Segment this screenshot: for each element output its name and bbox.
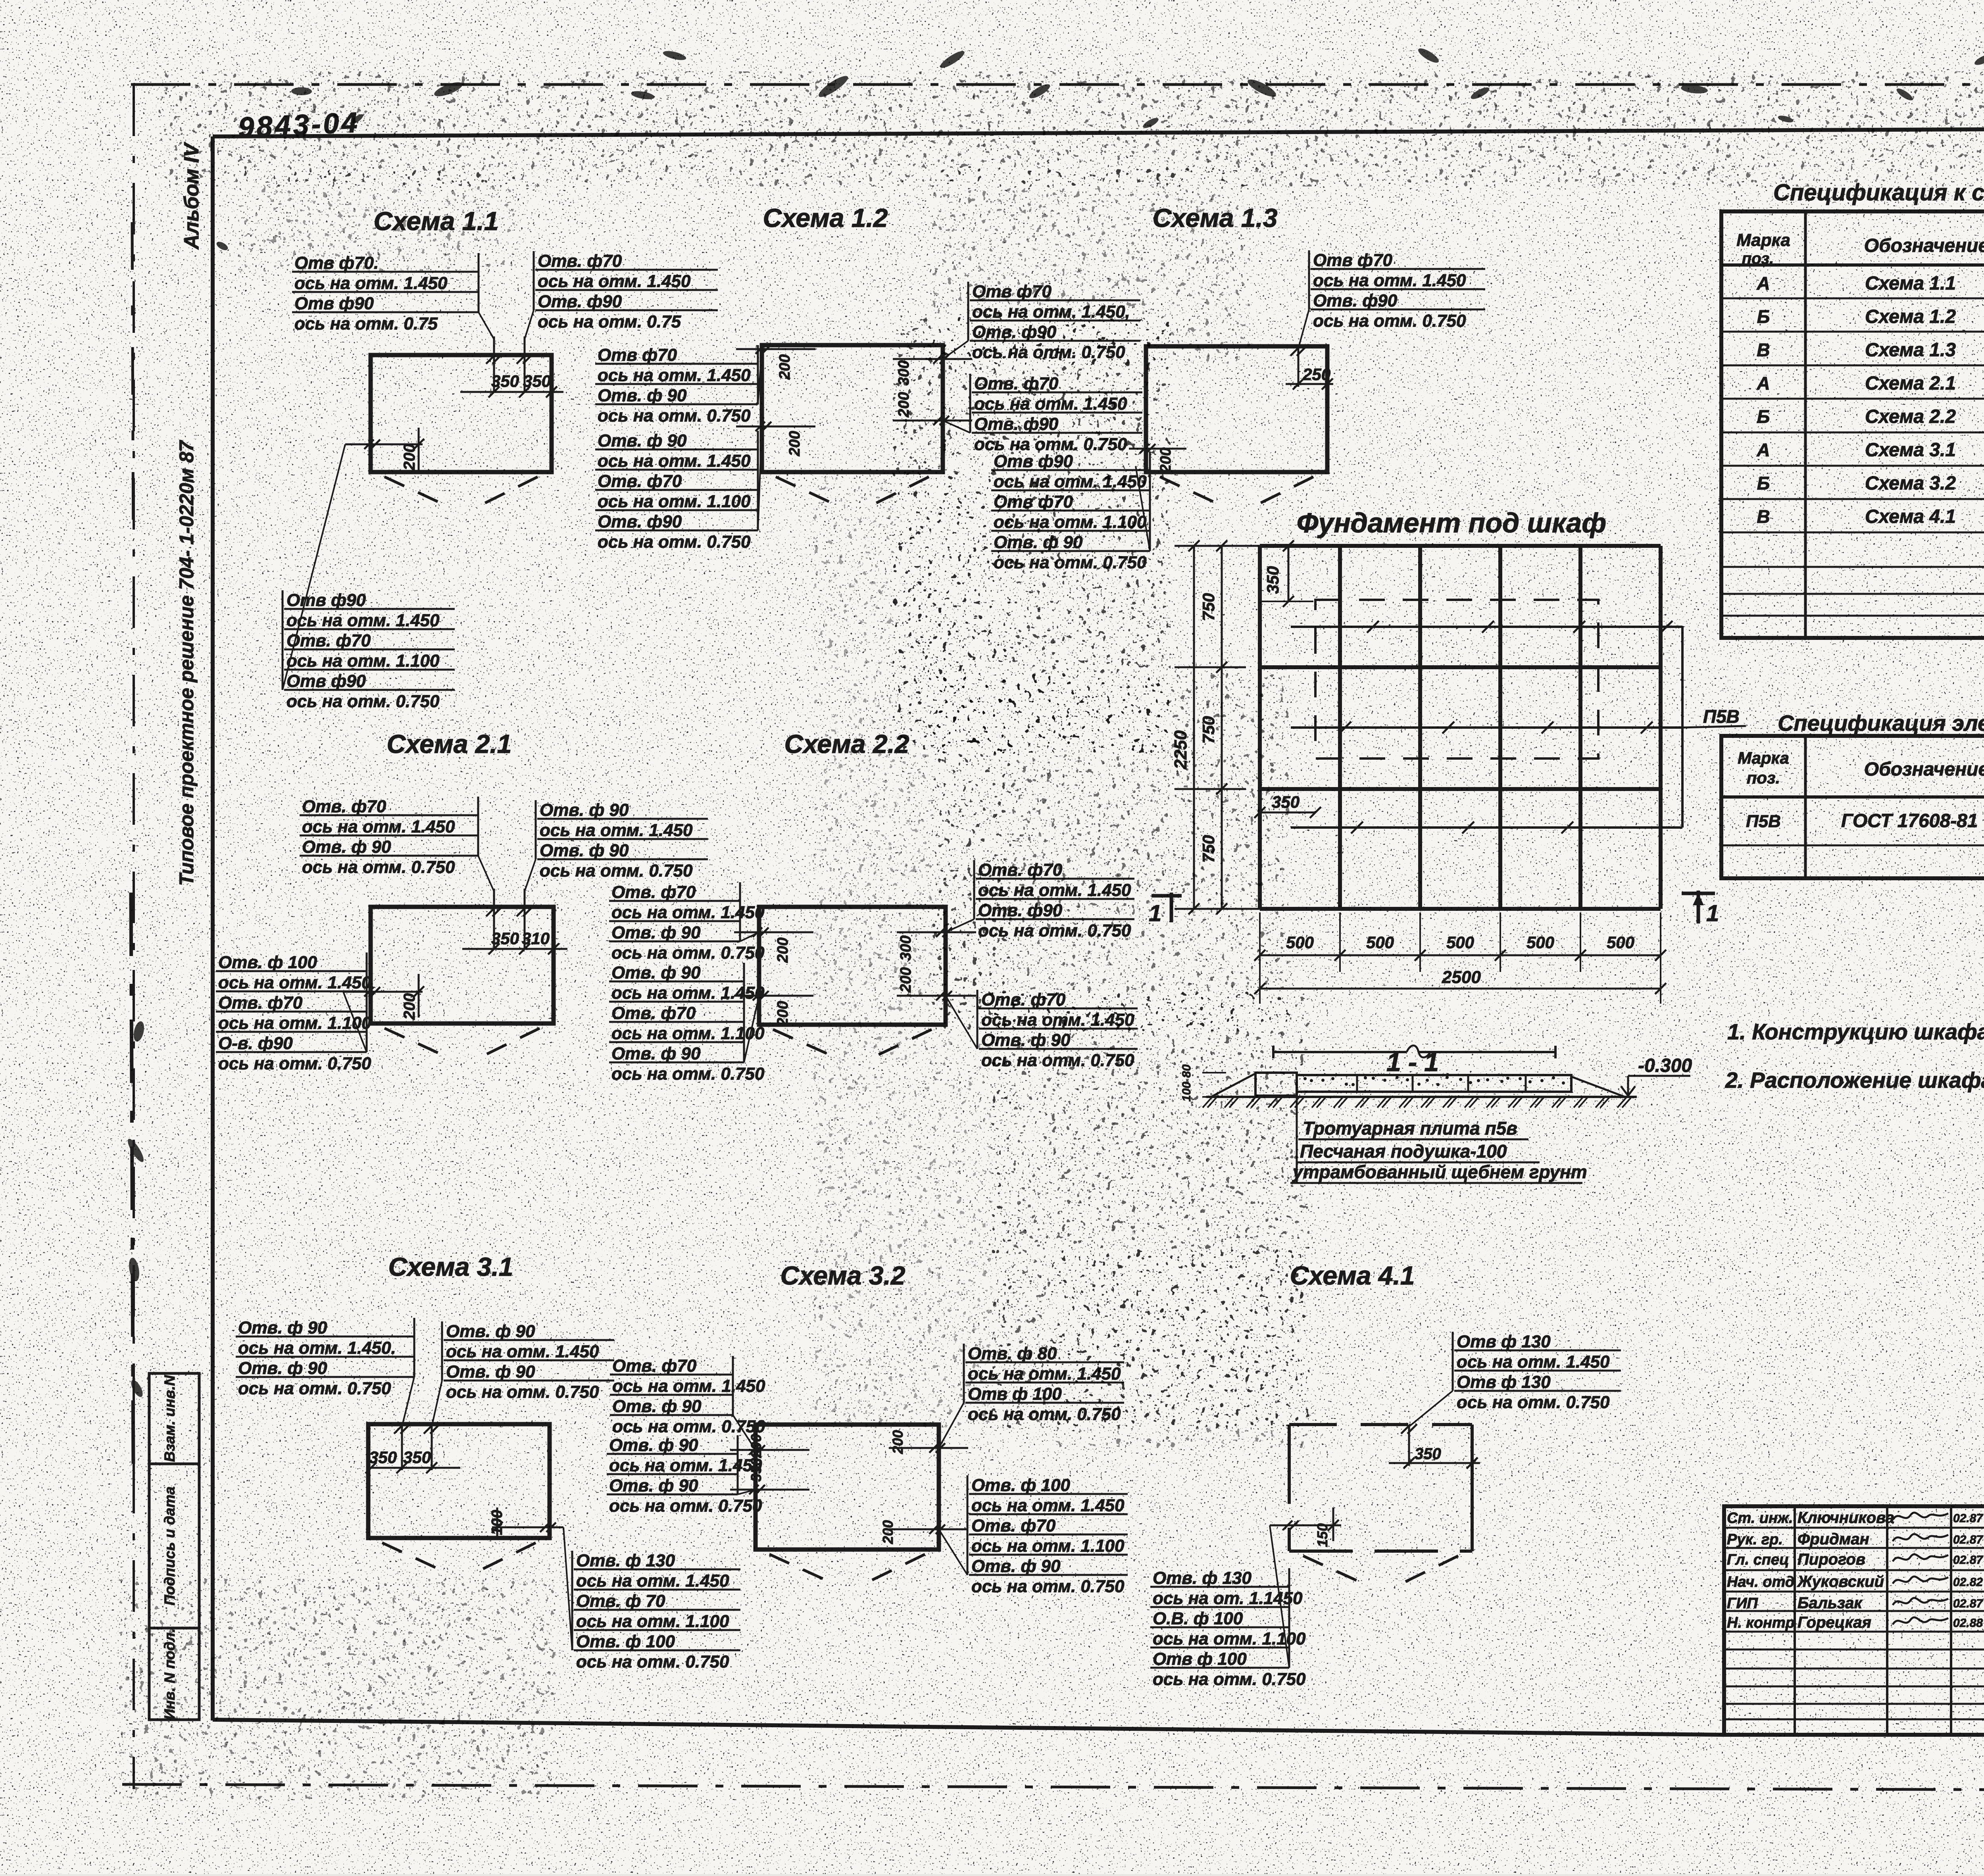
schema 2.2 cabinet outline: [759, 907, 946, 1025]
plan left dimension total 2250: [1193, 546, 1195, 909]
schema 2.1 left entry dim 200: [343, 991, 423, 993]
schema 2.1 labels top-right: [525, 800, 708, 891]
outer cut border dash-dot: [131, 83, 1984, 86]
scan ink blobs: [291, 87, 312, 96]
section material labels: [1296, 1092, 1298, 1183]
schema 2.1 labels top-left: [300, 797, 494, 891]
section slab left block: [1255, 1073, 1297, 1096]
schema 1.3 cabinet outline: [1146, 346, 1327, 472]
section ground line: [1206, 1096, 1637, 1098]
schema 1.1 labels bottom-left: [283, 444, 455, 711]
schema 2.2 right edge entries: [897, 931, 976, 933]
schema 1.2 cabinet outline: [762, 345, 943, 472]
schema 3.2 labels right-top: [939, 1344, 1124, 1448]
schema 1.1 labels top-left: [292, 253, 494, 339]
schema 1.2 labels right-bottom: [943, 374, 1142, 454]
schema 4.1 top entry dim 350: [1408, 1427, 1410, 1466]
schema 2.2 left edge entries: [734, 931, 813, 933]
dashed door swing: [384, 1028, 450, 1058]
dashed door swing: [384, 477, 449, 507]
schema 1.2 labels right-top: [943, 282, 1140, 362]
plan bottom total 2500: [1260, 988, 1661, 990]
ground hatching: [1203, 1097, 1212, 1108]
margin stamp boxes: [149, 1373, 199, 1464]
title block signature table: [1724, 1506, 1984, 1735]
schema 1.1 left hole entry dim 200: [345, 444, 423, 445]
plan bottom dimension chain 500x5: [1260, 954, 1661, 956]
schema 3.1 labels top-left: [236, 1318, 414, 1427]
foundation grid horizontals: [1260, 544, 1661, 548]
schema 1.2 left edge entries: [736, 348, 815, 350]
main drawing frame: [213, 127, 1984, 136]
schema 3.1 labels bottom-right: [563, 1527, 740, 1671]
schema 4.1 labels top: [1409, 1332, 1621, 1427]
schema 4.1 left bottom entry: [1270, 1525, 1341, 1527]
schema 2.2 labels right-bottom: [946, 990, 1138, 1070]
schema 3.1 labels top-right: [432, 1321, 614, 1427]
schema 2.1 labels left: [216, 952, 371, 1073]
section mark 1 right: [1682, 892, 1715, 895]
section mark 1 left: [1152, 894, 1182, 898]
dashed door swing: [382, 1543, 447, 1573]
specification table 2 grid: [1721, 736, 1984, 878]
plan dim 350 top (to dashed outline): [1288, 546, 1290, 601]
schema 3.2 right edge entries: [889, 1447, 968, 1449]
cabinet dashed outline on plan: [1315, 600, 1598, 758]
schema 1.3 top entry dim 250: [1298, 348, 1300, 387]
schema 3.2 left edge entries: [730, 1449, 809, 1451]
dashed door swing: [1160, 477, 1225, 507]
schema 3.2 labels left-top: [610, 1356, 765, 1450]
schema 3.1 cabinet outline: [368, 1424, 550, 1538]
plan dim 350 left (to dashed outline): [1260, 812, 1315, 814]
schema 1.1 labels top-right: [525, 251, 718, 339]
foundation grid verticals: [1258, 546, 1262, 909]
schema 1.2 labels left-bottom: [595, 426, 762, 551]
dashed door swing: [776, 477, 840, 507]
schema 1.3 bottom-left entry dim 200: [1129, 448, 1186, 450]
plan left dimension chain 750s: [1221, 546, 1223, 909]
schema 4.1 cabinet outline dashed: [1289, 1423, 1472, 1426]
elevation mark -0.300: [1627, 1076, 1629, 1096]
schema 1.1 top hole entries: [493, 336, 495, 392]
schema 2.1 cabinet outline: [371, 907, 554, 1023]
schema 3.2 labels left-bottom: [607, 1435, 762, 1515]
section slopes: [1211, 1073, 1255, 1097]
schema 3.2 cabinet outline: [756, 1425, 939, 1550]
scan edge accent left: [131, 893, 133, 1468]
dashed door swing: [1303, 1556, 1369, 1586]
schema 1.2 right edge entries: [893, 358, 972, 360]
schema 2.2 labels left-bottom: [609, 963, 765, 1083]
schema 2.2 labels left-top: [609, 882, 765, 962]
schema 1.3 labels bottom-left: [991, 451, 1150, 572]
plate label P5V: [1682, 726, 1746, 728]
schema 1.2 labels left-top: [595, 345, 762, 425]
schema 2.1 top hole entries: [493, 889, 495, 949]
section slab strip: [1297, 1075, 1571, 1092]
handwritten doc number: [238, 107, 360, 144]
schema 3.2 labels right-bottom: [939, 1475, 1128, 1596]
schema 3.1 bottom-right entry dim 100: [492, 1527, 563, 1528]
dashed door swing: [773, 1029, 840, 1060]
schema 4.1 labels bottom-left: [1150, 1525, 1306, 1689]
specification table 1 grid: [1721, 211, 1984, 638]
plate rows with ticks: [1291, 626, 1682, 628]
dashed door swing: [769, 1554, 835, 1584]
schema 2.2 labels right-top: [946, 860, 1134, 940]
schema 1.3 labels top: [1298, 250, 1485, 348]
schema 1.1 cabinet outline: [371, 355, 552, 472]
plate region right outline: [1681, 626, 1684, 828]
schema 3.1 top hole entries: [401, 1427, 403, 1470]
section top break line: [1273, 1051, 1407, 1053]
